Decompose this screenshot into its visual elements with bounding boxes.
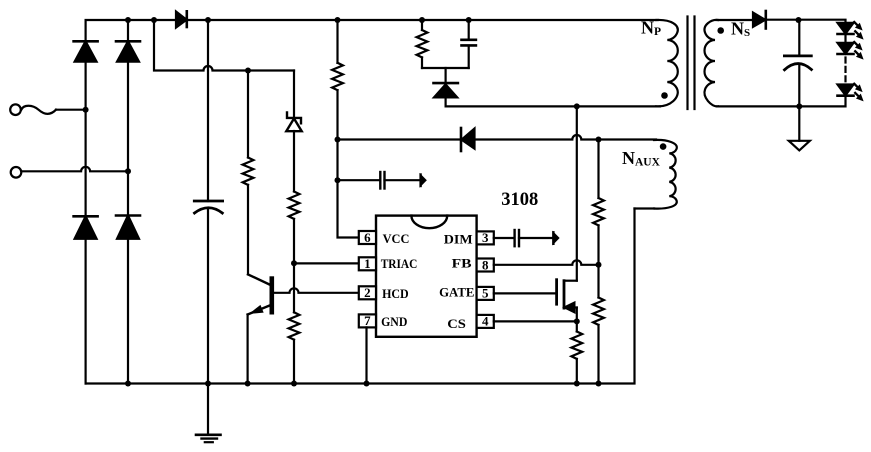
wire R6 to FB node [597,225,599,297]
resistor R4 [289,192,300,219]
wire C1 to ground rail [207,209,209,384]
pin 3 box [477,230,494,245]
LED1 emission arrows [854,22,863,39]
secondary ground symbol [789,141,810,151]
LED LED3 [838,85,854,96]
wire fuse to bridge node [56,109,86,111]
transformer primary NP [656,20,678,107]
svg-text:4: 4 [482,314,489,329]
dashed wire LED2 to LED3 [844,58,846,84]
svg-text:3: 3 [482,230,489,245]
wire snubber resistor branch [421,20,423,30]
node top rail x=208 [205,17,211,23]
wire bridge leg 1 bottom [84,239,86,384]
wire bridge leg 2 [127,20,129,384]
pin 4 box [477,314,494,329]
svg-text:2: 2 [364,285,371,300]
wire R5 to ground rail [293,340,295,384]
wire D6 anode to NAUX top (hump over drain line) [475,135,657,140]
diode D3 (bridge lower-left) [74,216,98,239]
diode D7 (output rectifier) [753,11,766,29]
node top rail x=154 [151,17,157,23]
wire zener to R4 [293,131,295,192]
wire D8 anode to drain line / primary bottom [446,97,660,106]
LED LED1 [838,23,854,34]
transformer core [688,17,695,110]
svg-text:1: 1 [364,256,371,271]
wire LED3 to bottom line [717,96,846,107]
node top rail x=422 [419,17,425,23]
pin 7 box [359,313,376,328]
wire C4 to arrow [519,237,553,239]
svg-text:NAUX: NAUX [622,148,661,169]
capacitor C1 (bulk electrolytic) [194,201,222,213]
wire R7 to rail [597,325,599,384]
arrow marker (from VCC cap) [553,232,558,244]
pin 5 box [477,286,494,301]
pin 2 box [359,285,376,300]
wire to secondary ground [798,106,800,140]
wire MOSFET source to CS node [576,308,578,322]
wire TRIAC node to pin 1 [294,262,359,264]
LED2 emission arrows [854,42,863,59]
transistor Q1 [248,274,272,314]
svg-text:5: 5 [482,286,489,301]
NP polarity dot [661,92,668,99]
wire snubber cap branch [468,20,470,39]
MOSFET Q2 [557,280,577,313]
wire Q1 base to HCD pin 2 (hump over x=294) [273,288,359,293]
node VCC cap branch [335,177,341,183]
wire R4 to TRIAC node [293,219,295,263]
wire zener branch [293,71,295,119]
pin 1 box [359,256,376,271]
svg-text:FB: FB [452,256,472,271]
svg-text:HCD: HCD [382,286,409,301]
wire VCC branch from top rail [336,20,338,63]
resistor R6 (divider upper) [593,198,604,225]
wire snubber cap bottom [468,46,470,68]
input terminal N [11,167,22,178]
svg-text:GATE: GATE [439,285,474,300]
node rail x=294 [291,381,297,387]
diode D1 (bridge upper-left) [74,41,98,61]
wire R3 branch top [247,71,249,158]
node damper branch x=248 [245,68,251,74]
resistor R1 (snubber) [417,30,428,57]
node top rail x=468.7 [466,17,472,23]
resistor R3 [243,158,254,185]
wire C5 to bottom line [798,65,800,106]
wire damper branch y=70.5 (hump over x=208) [154,20,294,71]
wire snubber R to bottom [421,57,423,68]
svg-text:VCC: VCC [383,231,410,246]
resistor R8 (current sense) [571,332,582,359]
pin 8 box [477,257,494,272]
fuse F1 [21,106,56,114]
node top rail x=337.5 [335,17,341,23]
node TRIAC [291,260,297,266]
transformer auxiliary NAUX [654,140,677,209]
wire snubber bottom [422,67,469,69]
wire NS top to D7 [717,19,753,21]
resistor R2 [332,63,343,90]
wire NAUX bottom to ground rail [635,207,655,209]
wire VCC diode line to NAUX (hump over x=576.8) [338,138,462,140]
node bridge AC L [83,107,89,113]
wire CS pin to source node [494,320,577,322]
wire bulk cap branch x=208 [207,20,209,201]
capacitor C2 [380,172,384,189]
svg-text:GND: GND [381,314,407,329]
node NAUX line x=598.5 [596,137,602,143]
resistor R5 [289,312,300,339]
node rail x=576.8 [574,381,580,387]
wire Rcs to rail [576,359,578,384]
LED LED2 [838,43,854,54]
svg-text:7: 7 [364,313,371,328]
wire drain vertical x=576.8 [576,106,578,280]
IC U1 3108 [376,216,477,337]
node top rail x=128 [125,17,131,23]
wire CS node to Rcs [576,321,578,331]
ground symbol [196,384,221,443]
diode D5 (line diode on top rail) [176,11,187,27]
wire Q1 emitter to ground rail [247,315,249,384]
svg-text:6: 6 [364,230,371,245]
svg-text:DIM: DIM [444,232,473,247]
node rail x=366.5 [364,381,370,387]
svg-text:NS: NS [731,19,750,40]
arrow marker (to DIM) [421,175,426,187]
input terminal L [10,104,21,115]
wire top rail [86,20,658,41]
capacitor C5 (output) [784,56,811,70]
diode D8 (clamp) [434,83,458,97]
node rail x=208 [205,381,211,387]
wire VCC cap branch [338,179,381,181]
transformer secondary NS [705,20,719,107]
node rail x=128 [125,381,131,387]
svg-text:TRIAC: TRIAC [381,256,418,271]
node rail x=598.5 [596,381,602,387]
wire GATE pin to MOSFET gate [494,292,557,294]
wire bridge leg 1 mid [84,62,86,217]
diode D2 (bridge upper-right) [116,41,140,61]
diode D4 (bridge lower-right) [116,216,140,239]
node FB divider [596,262,602,268]
wire R3 to Q1 collector [247,185,249,275]
resistor R7 (divider lower) [593,298,604,325]
wire snubber to D8 [445,68,447,83]
LED3 emission arrows [854,84,863,101]
svg-text:8: 8 [482,257,489,272]
wire divider branch from NAUX line [597,140,599,199]
NAUX polarity dot [660,143,667,150]
node drain line top [574,103,580,109]
svg-text:CS: CS [447,316,466,331]
capacitor C4 (DIM) [515,230,519,246]
capacitor C3 (snubber) [462,40,476,46]
wire R2 to VCC pin 6 [338,90,359,237]
wire output cap branch [798,20,800,56]
node VCC diode line x=337.5 [335,137,341,143]
wire GND pin to rail [365,327,367,383]
diode D6 (VCC rectifier from NAUX) [461,128,475,151]
wire ground rail [86,209,635,384]
wire C2 to arrow [385,179,421,181]
pin 6 box [359,230,376,245]
wire TRIAC node to R5 [293,263,295,312]
svg-text:3108: 3108 [501,189,538,210]
node rail x=247.6 [245,381,251,387]
node CS source [574,318,580,324]
wire FB pin to divider node (hump over drain line) [494,260,599,265]
wire terminal N to bridge leg 2 (hump over leg 1) [22,167,128,171]
node bridge AC N [125,168,131,174]
wire LED1 to LED2 [844,34,846,43]
wire DIM pin to cap [494,237,515,239]
node secondary bottom [796,103,802,109]
node secondary top [796,17,802,23]
NS polarity dot [717,27,724,34]
wire D7 to LED string top [766,20,846,23]
zener diode Z1 [286,113,301,132]
